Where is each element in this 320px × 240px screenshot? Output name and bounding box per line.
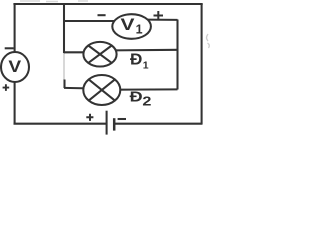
faint scan smudge right edge	[207, 34, 210, 48]
wire: left bus vertical (solid bottom stub)	[63, 80, 65, 89]
wire: left bus vertical (faint middle part)	[63, 53, 65, 80]
wire: right side of outer loop	[201, 4, 203, 124]
plus label of battery	[86, 114, 93, 121]
minus label of V1	[98, 14, 106, 16]
lamp D2 body	[83, 75, 120, 105]
svg-text:1: 1	[136, 23, 143, 37]
wire: bottom side left of battery	[14, 123, 107, 125]
voltmeter V (left) body	[1, 52, 29, 82]
plus label of voltmeter V	[3, 84, 10, 91]
lamp D2 cross	[89, 79, 115, 100]
faint scan smudge top edge	[20, 0, 88, 3]
svg-text:Đ: Đ	[130, 88, 143, 105]
svg-text:2: 2	[142, 95, 151, 109]
battery long plate (+)	[106, 111, 108, 135]
svg-text:V: V	[121, 15, 135, 33]
wire: left bus vertical (solid top part)	[63, 4, 65, 53]
wire: V1 branch right	[146, 19, 178, 21]
svg-text:Đ: Đ	[130, 51, 143, 68]
plus label of V1	[154, 11, 164, 20]
wire: D2 branch left	[64, 87, 88, 90]
lamp D1 cross	[88, 46, 111, 63]
minus label of battery	[118, 118, 126, 120]
wire: D1 branch right	[113, 49, 178, 52]
battery short plate (-)	[113, 118, 116, 130]
wire: V1 branch left	[64, 20, 118, 22]
lamp D1 body	[83, 42, 116, 67]
wire: top side of outer loop	[13, 3, 202, 5]
wire: D1 branch left	[64, 51, 88, 53]
wire: D2 branch right	[116, 88, 178, 90]
voltmeter V1 (top) body	[112, 14, 151, 39]
minus label of voltmeter V	[5, 47, 14, 49]
wire: bottom side right of battery	[114, 123, 202, 125]
svg-text:V: V	[8, 57, 21, 75]
wire: right bus vertical	[176, 20, 178, 90]
wire: left side of outer loop	[14, 4, 16, 124]
svg-text:1: 1	[143, 59, 149, 71]
